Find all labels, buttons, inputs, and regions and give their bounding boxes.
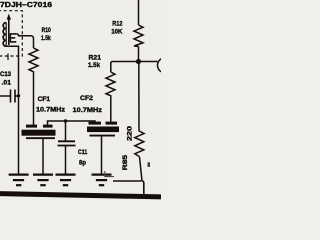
IF transformer L1 winding	[3, 22, 6, 46]
svg-text:R12: R12	[112, 20, 123, 27]
bottom border bar	[0, 194, 161, 197]
label R12 10K	[111, 20, 123, 35]
svg-text:.01: .01	[2, 79, 12, 86]
label R21 1.5k	[88, 54, 102, 68]
wire: C13 node to ground	[18, 96, 20, 175]
wire: base junction down to R85	[138, 62, 140, 132]
wire: coil bottom tap down to C13 node	[6, 46, 19, 95]
svg-text:C11: C11	[78, 149, 88, 156]
wire: base bus from R21 corner to transistor	[111, 62, 158, 64]
svg-text:10.7MHz: 10.7MHz	[36, 106, 65, 113]
label C11 8p	[78, 149, 88, 167]
svg-text:10.7MHz: 10.7MHz	[73, 107, 103, 114]
svg-text:1.5k: 1.5k	[88, 62, 101, 69]
svg-text:1.5k: 1.5k	[41, 35, 51, 42]
stray mark (scan speck)	[148, 162, 150, 167]
wire: R85 bottom to ground rail	[113, 157, 142, 181]
border corner (inset box, bottom right)	[142, 181, 144, 195]
tuning slug arrow	[7, 14, 11, 45]
svg-text:7DJH–C7016: 7DJH–C7016	[0, 0, 52, 9]
wire: CF1 ground lead	[42, 139, 44, 174]
ground (C13)	[9, 175, 29, 186]
capacitor C13	[0, 90, 19, 103]
shield box (dashed) around IF transformer	[0, 11, 22, 56]
faint lead fragment near CF2 ground	[105, 171, 114, 177]
transformer secondary tap bracket	[10, 33, 16, 42]
resistor R10	[29, 48, 38, 74]
resistor R21	[106, 64, 115, 122]
node: C13 junction dot	[17, 94, 20, 97]
label R10 1.5k	[41, 27, 51, 42]
svg-text:10K: 10K	[111, 29, 123, 36]
svg-text:R21: R21	[89, 54, 102, 61]
svg-text:CF2: CF2	[80, 95, 93, 102]
svg-text:CF1: CF1	[38, 96, 51, 103]
wire: coil tap to R10 top	[16, 34, 33, 48]
transistor Q1	[158, 58, 173, 73]
ceramic filter CF2	[87, 122, 119, 137]
resistor R12	[134, 0, 143, 62]
node: base junction dot	[136, 59, 141, 64]
ground (CF2)	[92, 175, 112, 186]
ground (C11)	[56, 175, 76, 186]
resistor R85 220	[135, 131, 144, 157]
label CF1 10.7MHz	[36, 96, 65, 113]
stub lead below shield box	[7, 54, 9, 61]
svg-text:220: 220	[126, 126, 133, 141]
capacitor C11	[58, 121, 76, 174]
wire: CF1 output to CF2 input (signal bus)	[48, 121, 96, 125]
svg-text:R85: R85	[122, 155, 129, 171]
label CF2 10.7MHz	[73, 95, 103, 114]
svg-text:C13: C13	[0, 71, 11, 78]
svg-text:8p: 8p	[79, 160, 86, 167]
label C13 .01	[0, 71, 12, 86]
wire: CF2 ground lead	[101, 137, 103, 175]
node: C11 junction dot	[64, 119, 67, 122]
wire: R10 bottom to CF1 input pad	[33, 74, 35, 125]
ground (CF1)	[33, 175, 53, 186]
svg-text:R10: R10	[42, 27, 52, 34]
ceramic filter CF1	[22, 125, 56, 139]
